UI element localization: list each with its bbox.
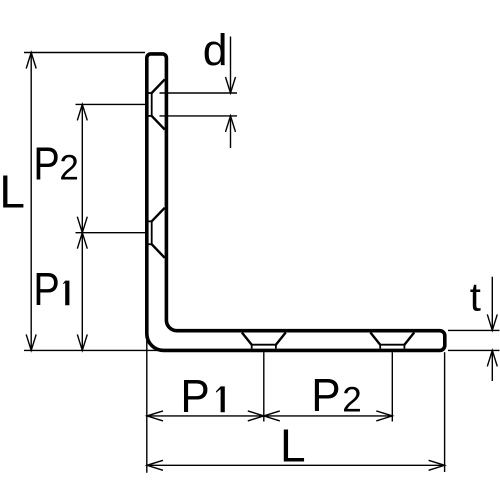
P left bottom (down) [77, 334, 87, 350]
extension line bottom face [24, 349, 163, 351]
bottom extension lines [146, 331, 148, 473]
d top (down) [226, 77, 236, 93]
svg-text:L: L [0, 166, 25, 218]
svg-text:P: P [33, 263, 59, 315]
svg-text:P: P [180, 370, 209, 422]
angle bracket outline [147, 54, 445, 351]
bottom P middle cross [248, 411, 264, 421]
L left top (up) [26, 53, 36, 69]
bottom P left (left) [147, 411, 163, 421]
P dimension line (left) [81, 104, 83, 350]
bottom L right (right) [429, 460, 445, 470]
svg-text:L: L [280, 419, 306, 471]
svg-text:d: d [203, 27, 228, 76]
P left middle cross [77, 233, 87, 249]
extension line hole2 centre [76, 232, 146, 234]
countersunk hole 3 (horizontal leg, left) [242, 333, 286, 349]
extension line hole1 centre [76, 103, 146, 105]
bottom L left (left) [147, 460, 163, 470]
d dimension lines [160, 92, 238, 94]
svg-text:t: t [470, 276, 481, 320]
P left top (up) [77, 104, 87, 120]
t bottom (up) [487, 350, 497, 366]
countersunk hole 1 (vertical leg, top) [147, 79, 165, 129]
arrowheads [26, 53, 497, 471]
extension line top (part top edge) [24, 52, 145, 54]
svg-text:2: 2 [342, 380, 361, 419]
svg-text:P: P [33, 137, 59, 189]
svg-text:P: P [311, 369, 340, 421]
t top (down) [487, 314, 497, 330]
countersunk hole 2 (vertical leg, lower) [147, 208, 165, 258]
L left bottom (down) [26, 334, 36, 350]
countersunk hole 4 (horizontal leg, right) [370, 333, 414, 349]
t dimension lines [448, 329, 500, 331]
svg-text:2: 2 [59, 149, 78, 188]
d bottom (up) [226, 116, 236, 132]
L dimension line (bottom) [147, 464, 445, 466]
L dimension line (left) [30, 53, 32, 351]
P1/P2 dimension line (bottom) [147, 415, 392, 417]
bottom P right (right) [376, 411, 392, 421]
